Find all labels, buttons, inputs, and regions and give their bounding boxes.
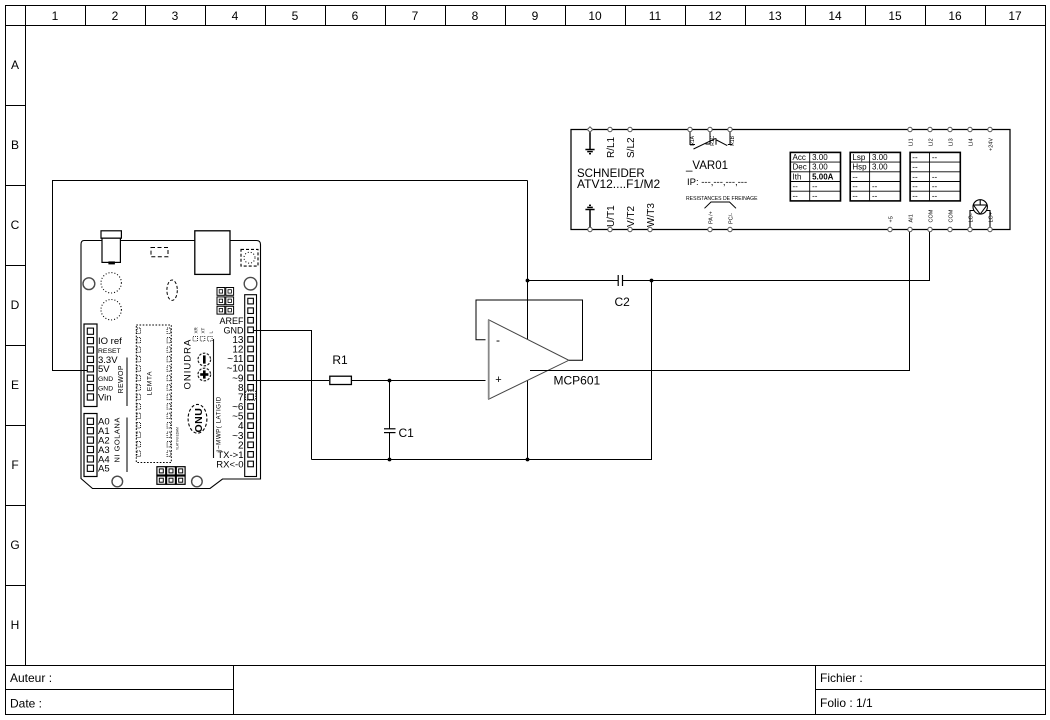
svg-text:--: --	[852, 172, 858, 181]
svg-text:C2: C2	[615, 295, 631, 309]
parameter table 2	[850, 152, 900, 201]
svg-text:16: 16	[948, 9, 962, 23]
svg-text:--: --	[912, 192, 918, 201]
node junction C2-left	[526, 279, 530, 283]
label separator lines	[126, 358, 128, 407]
svg-text:V/T2: V/T2	[626, 205, 637, 227]
frame column numbers	[52, 9, 1022, 23]
wire Arduino GND pin to bottom rail	[254, 331, 312, 460]
svg-text:)~MWP( LATIGID: )~MWP( LATIGID	[215, 396, 222, 451]
svg-text:--: --	[812, 192, 818, 201]
svg-text:--: --	[812, 182, 818, 191]
crystal dashed ellipse	[167, 280, 177, 300]
svg-text:LI4: LI4	[969, 138, 975, 146]
svg-text:A5: A5	[98, 464, 110, 475]
terminals top edge	[587, 127, 992, 132]
digital pin labels	[216, 316, 244, 471]
analog header	[84, 414, 97, 477]
svg-text:--: --	[872, 192, 878, 201]
svg-text:AREF: AREF	[219, 316, 244, 326]
svg-text:GND: GND	[224, 325, 245, 335]
dotted capacitors	[101, 273, 121, 293]
svg-text:3.00: 3.00	[812, 153, 828, 162]
svg-text:5: 5	[292, 9, 299, 23]
svg-text:--: --	[912, 172, 918, 181]
svg-text:14: 14	[828, 9, 842, 23]
svg-text:LO-: LO-	[969, 213, 975, 222]
svg-text:C1: C1	[399, 426, 415, 440]
svg-text:REWOP: REWOP	[118, 365, 125, 393]
ATmega chip dotted body	[136, 325, 171, 463]
wire op-amp output to ATV12 AI1	[530, 230, 910, 371]
svg-text:--: --	[793, 182, 799, 191]
svg-text:3.00: 3.00	[812, 163, 828, 172]
parameter table 3	[910, 152, 960, 201]
svg-text:Folio : 1/1: Folio : 1/1	[820, 696, 873, 710]
ground bottom	[585, 205, 594, 227]
svg-text:LO+: LO+	[989, 212, 995, 223]
svg-text:3.00: 3.00	[872, 163, 888, 172]
svg-text:1: 1	[52, 9, 59, 23]
svg-text:LI3: LI3	[949, 138, 955, 146]
dotted separator below pin 8	[246, 391, 256, 400]
svg-text:--: --	[932, 172, 938, 181]
svg-text:9: 9	[532, 9, 539, 23]
svg-text:NI GOLANA: NI GOLANA	[112, 417, 121, 462]
svg-text:5V: 5V	[98, 364, 110, 375]
svg-text:--: --	[912, 153, 918, 162]
svg-text:ONU: ONU	[193, 408, 205, 433]
svg-text:MCP601: MCP601	[554, 374, 601, 388]
node junction R1-C1	[388, 379, 392, 383]
svg-text:PC/-: PC/-	[729, 213, 735, 224]
wire vertical 5V rail to C2 left and bottom rail	[527, 181, 529, 460]
svg-text:_VAR01: _VAR01	[685, 160, 728, 172]
svg-text:R1B: R1B	[730, 135, 736, 145]
svg-text:Hsp: Hsp	[852, 163, 867, 172]
svg-text:A: A	[11, 58, 19, 72]
svg-text:17: 17	[1008, 9, 1022, 23]
resistor R1	[330, 376, 352, 384]
svg-text:--: --	[872, 182, 878, 191]
screw holes	[83, 277, 257, 486]
digital separator line	[213, 339, 215, 458]
wire bottom rail	[312, 281, 652, 460]
svg-text:IP: ---,---,---,---: IP: ---,---,---,---	[687, 177, 747, 188]
svg-text:7: 7	[412, 9, 419, 23]
svg-text:G: G	[10, 538, 19, 552]
svg-text:Acc: Acc	[793, 153, 806, 162]
frame row letters	[10, 58, 19, 632]
brake resistor bracket	[705, 202, 737, 208]
svg-text:R1C: R1C	[710, 135, 716, 145]
power jack	[101, 231, 121, 265]
svg-text:GND: GND	[98, 376, 113, 383]
svg-text:LI2: LI2	[929, 138, 935, 146]
digital header strip	[245, 295, 257, 477]
Arduino UNO board outline	[81, 241, 261, 489]
svg-text:C: C	[11, 218, 20, 232]
svg-text:10: 10	[588, 9, 602, 23]
svg-text:--: --	[932, 182, 938, 191]
svg-text:--: --	[932, 153, 938, 162]
svg-text:PA /+: PA /+	[709, 211, 715, 224]
svg-text:--: --	[912, 163, 918, 172]
drive _VAR01 body	[571, 130, 1010, 230]
polarity plus symbol	[198, 368, 211, 381]
relay contact R1A/R1C/R1B	[690, 132, 733, 150]
wire feedback loop	[476, 300, 583, 360]
power header	[84, 324, 97, 407]
svg-text:YLATI NI EDAM: YLATI NI EDAM	[176, 427, 180, 450]
svg-text:+5: +5	[889, 216, 895, 222]
USB connector	[195, 231, 230, 275]
svg-text:COM: COM	[929, 209, 935, 222]
ground top	[585, 132, 594, 154]
svg-text:R/L1: R/L1	[606, 136, 617, 158]
wire C1 bottom lead	[389, 433, 391, 460]
svg-text:-: -	[496, 333, 500, 347]
reset button dashed	[151, 248, 168, 257]
svg-text:12: 12	[708, 9, 722, 23]
svg-text:S/L2: S/L2	[626, 137, 637, 158]
svg-text:U/T1: U/T1	[606, 205, 617, 227]
svg-text:XT: XT	[201, 327, 206, 333]
svg-text:IO ref: IO ref	[98, 336, 122, 347]
svg-text:13: 13	[768, 9, 782, 23]
svg-text:COM: COM	[949, 209, 955, 222]
node junction rail-bottom	[526, 458, 530, 462]
svg-text:+24V: +24V	[989, 138, 995, 151]
svg-text:RX<-0: RX<-0	[216, 460, 243, 471]
svg-text:Fichier :: Fichier :	[820, 671, 863, 685]
svg-text:B: B	[11, 138, 19, 152]
svg-text:11: 11	[649, 9, 662, 23]
svg-text:Ith: Ith	[793, 172, 802, 181]
parameter table 1	[790, 152, 840, 201]
svg-text:ONIUDRA: ONIUDRA	[183, 339, 194, 390]
wire 5V net: Arduino 5V pin up and across	[53, 181, 528, 371]
svg-text:W/T3: W/T3	[646, 203, 657, 227]
svg-text:5.00A: 5.00A	[812, 172, 834, 181]
wire R1 to op-amp + input	[352, 380, 486, 382]
svg-text:3: 3	[172, 9, 179, 23]
wire C2 left segment	[528, 280, 619, 282]
svg-text:2: 2	[112, 9, 119, 23]
node junction C1-bottom	[388, 458, 392, 462]
op-amp U1 MCP601	[476, 230, 910, 400]
svg-text:D: D	[11, 298, 20, 312]
svg-text:AI1: AI1	[909, 214, 915, 222]
svg-text:Auteur :: Auteur :	[10, 671, 52, 685]
svg-text:Dec: Dec	[793, 163, 807, 172]
svg-text:H: H	[11, 618, 20, 632]
svg-text:F: F	[11, 458, 18, 472]
node junction C2-right	[650, 279, 654, 283]
ICSP header	[217, 288, 234, 315]
lamp indicator	[970, 200, 990, 230]
polarity minus symbol	[198, 353, 211, 366]
svg-text:3.00: 3.00	[872, 153, 888, 162]
svg-text:6: 6	[352, 9, 359, 23]
title block texts	[10, 671, 873, 711]
wire C1 top lead	[389, 381, 391, 429]
svg-text:--: --	[793, 192, 799, 201]
svg-text:E: E	[11, 378, 19, 392]
wire C2 right segment to ATV12 COM	[623, 230, 930, 281]
capacitor C2	[618, 275, 622, 286]
svg-text:R1: R1	[332, 353, 348, 367]
svg-text:Vin: Vin	[98, 392, 112, 403]
svg-text:R1A: R1A	[690, 135, 696, 145]
svg-text:LEMTA: LEMTA	[147, 371, 154, 396]
svg-text:15: 15	[888, 9, 902, 23]
bottom 2x3 header	[157, 467, 185, 485]
svg-text:ATV12....F1/M2: ATV12....F1/M2	[577, 177, 660, 191]
svg-text:XR: XR	[193, 326, 198, 333]
svg-text:Date :: Date :	[10, 697, 42, 711]
svg-text:--: --	[852, 192, 858, 201]
UNO logo	[188, 404, 207, 433]
svg-text:LI1: LI1	[909, 138, 915, 146]
svg-text:+: +	[495, 374, 501, 386]
dashed pad top-right	[241, 249, 258, 266]
terminals bottom edge	[588, 227, 992, 231]
wire Arduino pin 9 to R1	[254, 380, 330, 382]
svg-text:Lsp: Lsp	[852, 153, 865, 162]
svg-text:8: 8	[472, 9, 479, 23]
capacitor C1	[384, 429, 396, 433]
svg-text:--: --	[932, 192, 938, 201]
svg-text:RESISTANCES DE FREINAGE: RESISTANCES DE FREINAGE	[686, 196, 758, 202]
svg-text:--: --	[912, 182, 918, 191]
svg-text:--: --	[852, 182, 858, 191]
svg-text:4: 4	[232, 9, 239, 23]
